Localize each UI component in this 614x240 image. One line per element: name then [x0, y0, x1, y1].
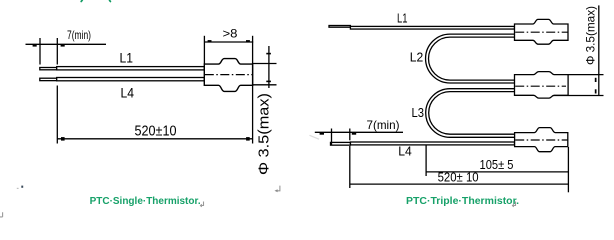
svg-text:Φ 3.5(max): Φ 3.5(max)	[584, 6, 598, 65]
svg-text:Φ 3.5(max): Φ 3.5(max)	[255, 93, 272, 175]
svg-text:L1: L1	[397, 12, 408, 26]
svg-text:L4: L4	[398, 144, 412, 158]
svg-text:>8: >8	[223, 27, 238, 41]
svg-text:520± 10: 520± 10	[438, 170, 479, 184]
svg-text:7(min): 7(min)	[67, 28, 91, 42]
svg-text:PTC·Triple·Thermistor.: PTC·Triple·Thermistor.	[406, 196, 519, 207]
svg-text:105± 5: 105± 5	[480, 158, 514, 172]
svg-text:L2: L2	[410, 51, 424, 65]
svg-text:L3: L3	[412, 106, 425, 120]
svg-text:520±10: 520±10	[135, 124, 177, 140]
svg-text:PTC·Single·Thermistor.: PTC·Single·Thermistor.	[90, 196, 201, 207]
svg-text:L1: L1	[120, 49, 134, 65]
svg-text:L4: L4	[121, 84, 135, 100]
svg-text:7(min): 7(min)	[367, 118, 400, 132]
